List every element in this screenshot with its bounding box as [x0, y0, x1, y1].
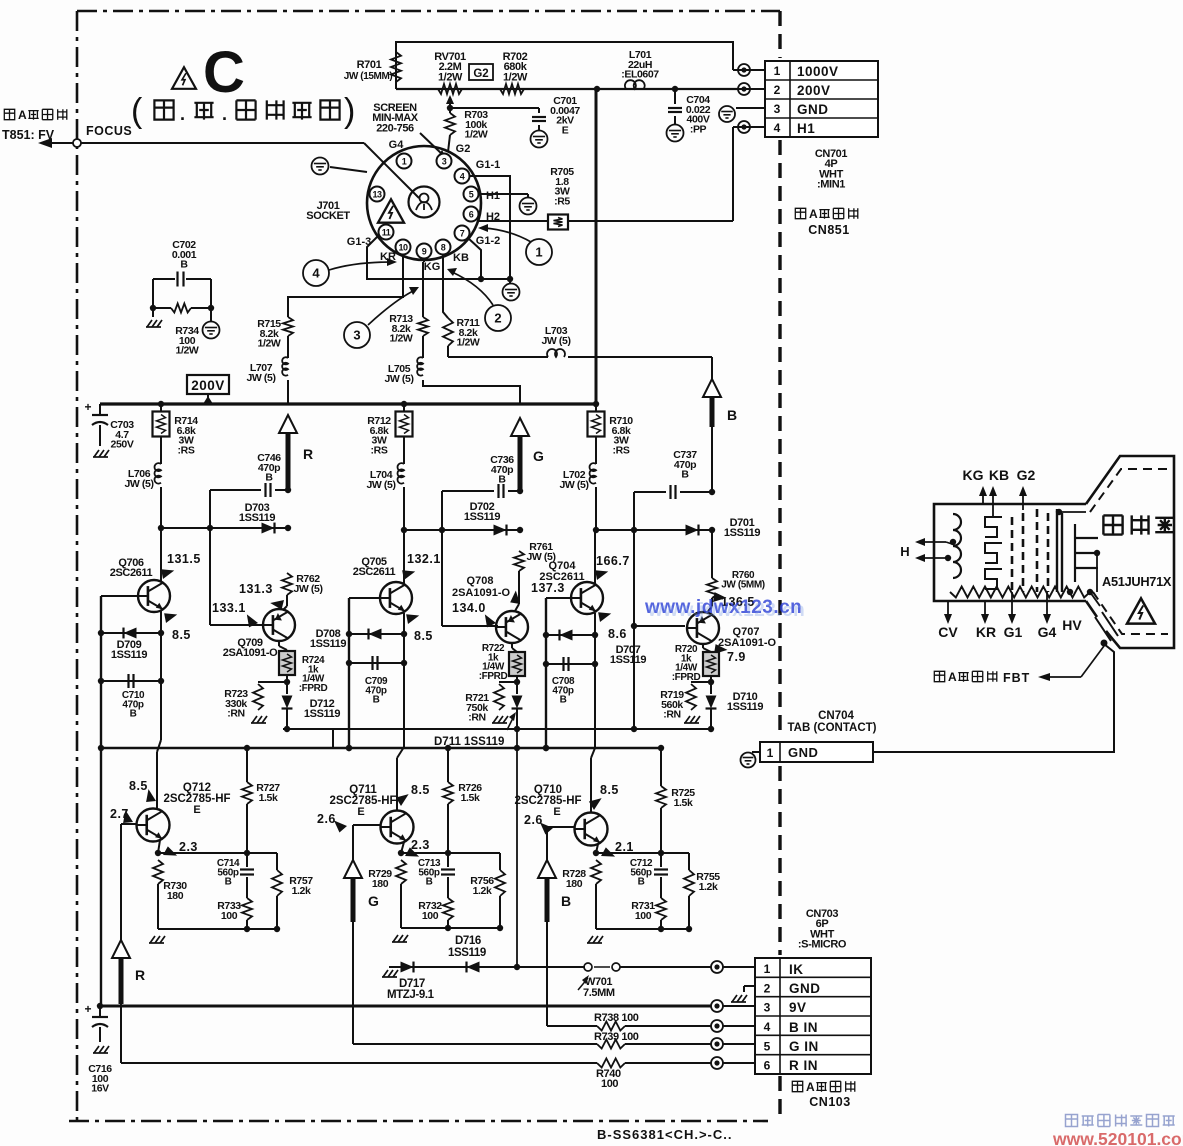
svg-text:180: 180 — [372, 878, 389, 890]
svg-text:1/2W: 1/2W — [465, 129, 488, 141]
resistor R722 — [479, 643, 525, 682]
svg-text::RS: :RS — [371, 444, 388, 456]
svg-text:B IN: B IN — [789, 1020, 818, 1035]
pin CN703-3 — [711, 1000, 755, 1012]
svg-text:R: R — [135, 967, 145, 983]
svg-text::FPRD: :FPRD — [479, 671, 508, 682]
pin 6 of socket J701 — [464, 207, 479, 222]
arrow B input — [538, 860, 571, 922]
label voltage 131.3 — [239, 582, 288, 613]
svg-text:8: 8 — [441, 243, 446, 253]
svg-text:B: B — [560, 695, 567, 706]
capacitor C714 — [217, 853, 254, 898]
label voltage 2.1 Q710 — [599, 840, 634, 861]
svg-text::RN: :RN — [663, 709, 680, 721]
svg-text:G2: G2 — [456, 143, 471, 155]
wire B base stage vertical — [631, 492, 685, 729]
wire 200V bus — [100, 401, 599, 407]
svg-text:CN704: CN704 — [818, 710, 854, 722]
svg-text:R701: R701 — [357, 59, 382, 71]
svg-text:2SA1091-O: 2SA1091-O — [718, 637, 777, 649]
svg-text:3: 3 — [353, 328, 360, 343]
svg-text:2SC2611: 2SC2611 — [110, 567, 153, 579]
svg-text:100: 100 — [422, 910, 439, 922]
svg-text:2SA1091-O: 2SA1091-O — [223, 647, 278, 659]
svg-text:B-SS6381<CH.>-C..: B-SS6381<CH.>-C.. — [597, 1127, 733, 1142]
label H arrows — [900, 538, 952, 562]
svg-text:3: 3 — [764, 1001, 771, 1015]
wire G1 bus — [367, 176, 513, 282]
svg-text:G4: G4 — [1038, 624, 1057, 640]
resistor R726 — [443, 748, 482, 853]
label voltage 8.5 Q712 — [129, 779, 159, 806]
svg-text:H1: H1 — [486, 190, 500, 202]
pin 8 of socket J701 — [436, 240, 451, 255]
svg-text::RN: :RN — [468, 712, 485, 724]
resistor R762 — [282, 573, 323, 595]
node R724 bottom — [284, 675, 290, 685]
svg-text:4: 4 — [764, 1020, 771, 1034]
label voltage 2.3 Q712 — [161, 840, 198, 860]
border frame dash-dot left — [76, 11, 79, 1121]
svg-text:1.2k: 1.2k — [699, 881, 718, 893]
diode D708 — [310, 628, 404, 650]
connector CN704 GND — [741, 742, 874, 768]
svg-text:E: E — [357, 806, 364, 818]
svg-text:.: . — [180, 104, 185, 124]
svg-text:www.520101.com: www.520101.com — [1052, 1129, 1183, 1146]
svg-text:KB: KB — [989, 467, 1009, 483]
svg-text:H1: H1 — [797, 121, 815, 136]
pin CN703-4 — [711, 1020, 755, 1032]
svg-text:200V: 200V — [191, 378, 225, 393]
wire R762 to Q709 — [283, 595, 287, 610]
wire B emitter rail — [587, 926, 692, 943]
pin 13 of socket J701 — [370, 187, 385, 202]
svg-text:134.0: 134.0 — [452, 601, 486, 615]
svg-text:8.5: 8.5 — [129, 779, 148, 793]
wire Q710 emitter — [593, 844, 689, 856]
pin 3 of socket J701 — [437, 154, 452, 169]
wire L707 down — [287, 380, 289, 404]
warning triangle socket — [378, 199, 404, 222]
border frame dashed right — [778, 11, 781, 1121]
svg-text:180: 180 — [167, 890, 184, 902]
svg-text:G2: G2 — [1017, 467, 1036, 483]
wire Q710 collector — [590, 810, 592, 812]
svg-text:1SS119: 1SS119 — [448, 947, 486, 959]
pin CN701-3 gnd — [719, 106, 765, 122]
label to A circuit board T851 FV — [2, 108, 67, 142]
resistor R723 — [224, 682, 287, 723]
wire focus to socket — [81, 143, 419, 198]
svg-text:13: 13 — [372, 190, 382, 200]
pin CN703-5 — [711, 1038, 755, 1050]
label voltage 131.5 — [157, 552, 200, 582]
svg-text:6: 6 — [764, 1059, 771, 1073]
diode D709 — [101, 628, 161, 662]
svg-text:1/2W: 1/2W — [438, 71, 463, 83]
label voltage 2.3 Q711 — [403, 838, 430, 861]
resistor R725 — [656, 748, 695, 853]
wire Q705 emitter chain — [397, 613, 407, 810]
CRT G2 solid grids — [1056, 509, 1086, 592]
svg-text:2.6: 2.6 — [524, 813, 543, 827]
wire H1 to ground — [478, 194, 537, 215]
title Chinese (red green blue output) — [131, 92, 355, 130]
pin 7 of socket J701 — [455, 226, 470, 241]
arrow R drive — [279, 415, 313, 490]
svg-text:1SS119: 1SS119 — [304, 708, 340, 720]
wire Q704 collector — [594, 530, 596, 584]
label voltage 8.5 Q710 — [588, 783, 619, 811]
wire main 200V rail top — [396, 88, 738, 90]
transistor Q705 2SC2611 — [353, 556, 412, 614]
svg-text:7: 7 — [460, 229, 465, 239]
svg-text:2.3: 2.3 — [179, 840, 198, 854]
svg-text:B: B — [561, 893, 571, 909]
svg-text:6: 6 — [469, 210, 474, 220]
svg-text:G1-1: G1-1 — [476, 159, 500, 171]
svg-text:B: B — [373, 695, 380, 706]
pin 1 of socket J701 — [397, 154, 412, 169]
svg-text:1SS119: 1SS119 — [610, 654, 646, 666]
wire Q706 emitter chain — [157, 611, 164, 809]
wire R emitter rail — [149, 926, 280, 943]
capacitor C736 — [442, 454, 523, 498]
label G2 box — [469, 64, 493, 80]
resistor R755 — [684, 853, 720, 929]
svg-text:180: 180 — [566, 878, 583, 890]
resistor R720 — [672, 644, 719, 683]
transistor Q709 2SA1091-O — [223, 609, 295, 659]
svg-text:CV: CV — [938, 624, 958, 640]
svg-text:8.5: 8.5 — [600, 783, 619, 797]
wire R760 to Q707 — [707, 598, 712, 613]
svg-text:JW (5): JW (5) — [559, 479, 588, 491]
svg-text:A: A — [806, 1080, 815, 1094]
svg-text:1/2W: 1/2W — [503, 71, 528, 83]
svg-text::EL0607: :EL0607 — [621, 69, 659, 81]
svg-text:133.1: 133.1 — [212, 601, 246, 615]
svg-text:JW (5MM): JW (5MM) — [721, 579, 765, 590]
wire Q711 emitter — [398, 842, 500, 856]
svg-text:G IN: G IN — [789, 1039, 819, 1054]
svg-text:R739 100: R739 100 — [594, 1031, 639, 1043]
svg-text:B: B — [727, 407, 737, 423]
svg-text:MTZJ-9.1: MTZJ-9.1 — [387, 989, 435, 1001]
label voltage 8.5 G emitter — [402, 609, 433, 643]
label to A board CN103 — [792, 1080, 854, 1109]
svg-text::R5: :R5 — [554, 195, 570, 207]
wire clamp rail — [283, 726, 714, 748]
resistor R713 — [389, 313, 428, 345]
wire R collector link — [161, 525, 291, 531]
label H1 — [486, 190, 500, 202]
svg-text:KG: KG — [963, 467, 984, 483]
transistor Q710 2SC2785-HF — [514, 784, 607, 846]
watermark 520101 url — [1052, 1129, 1183, 1146]
resistor R705 — [548, 166, 574, 230]
svg-text:JW (15MM): JW (15MM) — [344, 71, 393, 82]
svg-text::S-MICRO: :S-MICRO — [798, 939, 847, 951]
svg-text:A: A — [809, 207, 818, 221]
svg-text:): ) — [344, 92, 355, 130]
svg-text:4: 4 — [774, 121, 781, 135]
svg-text:3: 3 — [442, 157, 447, 167]
svg-text:100: 100 — [601, 1078, 618, 1090]
svg-text:G2: G2 — [473, 68, 488, 80]
resistor R730 — [153, 860, 187, 929]
capacitor C708 — [546, 657, 595, 706]
wire Q712 collector — [156, 809, 158, 810]
svg-text:JW (5): JW (5) — [124, 478, 153, 490]
svg-text:B: B — [498, 474, 506, 486]
svg-text:KB: KB — [453, 252, 469, 264]
svg-text:FBT: FBT — [1003, 671, 1030, 685]
svg-text:+: + — [84, 1002, 91, 1016]
svg-text:G: G — [368, 893, 379, 909]
svg-text::MIN1: :MIN1 — [817, 179, 845, 191]
test point 4 — [303, 258, 397, 286]
svg-text:B: B — [426, 877, 433, 888]
CRT G4 element — [1075, 524, 1100, 592]
svg-text:IK: IK — [789, 962, 804, 977]
label G1-2 — [476, 235, 500, 247]
svg-text::RS: :RS — [178, 444, 195, 456]
node focus terminal — [73, 139, 81, 147]
resistor R756 — [470, 853, 505, 928]
diode D712 — [282, 682, 341, 729]
label G2 pin3 — [456, 143, 471, 155]
warning triangle title — [172, 67, 196, 89]
wire 1000V top loop — [396, 42, 733, 89]
inductor L704 — [366, 463, 404, 530]
border frame dash-dot top — [77, 10, 780, 13]
wire R bias vertical — [98, 596, 138, 1006]
wire R761 to Q708 — [515, 571, 519, 611]
svg-text:R738 100: R738 100 — [594, 1012, 639, 1024]
CRT cathodes — [985, 517, 1002, 589]
resistor R701 — [344, 52, 401, 82]
wire G emitter rail — [392, 925, 503, 942]
label to A board FBT — [934, 646, 1104, 685]
label voltage 2.6 Q711 — [317, 812, 347, 833]
svg-text:1.5k: 1.5k — [461, 792, 480, 804]
svg-text:1.2k: 1.2k — [292, 885, 311, 897]
label H2 — [486, 211, 500, 223]
label KG KB G2 arrows — [963, 467, 1036, 517]
svg-text:1: 1 — [767, 746, 774, 760]
svg-text:GND: GND — [788, 745, 818, 760]
svg-text:2.6: 2.6 — [317, 812, 336, 826]
svg-text:JW (5): JW (5) — [366, 479, 395, 491]
connector CN703 table — [755, 958, 871, 1074]
svg-text:1.5k: 1.5k — [259, 792, 278, 804]
svg-text:C: C — [203, 40, 245, 105]
resistor R711 — [443, 317, 480, 349]
diode D707 — [546, 630, 646, 667]
label KG — [424, 261, 441, 273]
capacitor C746 — [210, 452, 291, 497]
wire Q711 base — [353, 825, 381, 1044]
resistor R728 — [562, 860, 601, 929]
ground G1 — [503, 279, 520, 301]
label G1-3 — [347, 236, 371, 248]
capacitor C704 — [667, 89, 711, 142]
wire G IN line — [353, 1031, 711, 1049]
test point 3 — [344, 287, 419, 348]
label CV KR G1 G4 HV — [938, 592, 1082, 640]
svg-text:1: 1 — [402, 157, 407, 167]
label voltage 132.1 — [398, 552, 440, 583]
pin CN701-2 — [738, 83, 765, 95]
svg-text:KG: KG — [424, 261, 441, 273]
svg-text:2.3: 2.3 — [411, 838, 430, 852]
resistor R734 — [150, 304, 214, 357]
svg-text:B: B — [180, 259, 188, 271]
svg-text:R: R — [303, 446, 313, 462]
resistor R719 — [660, 682, 711, 723]
resistor R715 — [257, 317, 293, 350]
pin 4 of socket J701 — [455, 169, 470, 184]
svg-text:D711 1SS119: D711 1SS119 — [434, 736, 504, 748]
wire Q706 collector — [160, 528, 162, 582]
test point 2 — [447, 268, 511, 331]
svg-text:8.5: 8.5 — [411, 783, 430, 797]
svg-text::RN: :RN — [227, 708, 244, 720]
test point 1 — [478, 224, 552, 265]
wire B collector link — [596, 527, 715, 533]
label CN703 6P WHT S-MICRO — [798, 908, 847, 951]
svg-text:2: 2 — [774, 83, 781, 97]
label voltage 2.6 Q710 — [524, 813, 553, 835]
capacitor C737 — [634, 449, 712, 499]
svg-text:11: 11 — [382, 228, 391, 238]
CRT anode contact hatch — [1095, 612, 1118, 647]
svg-text:137.3: 137.3 — [531, 581, 565, 595]
svg-text:131.5: 131.5 — [167, 552, 201, 566]
label voltage 8.5 R emitter — [160, 608, 191, 642]
diode D701 — [686, 517, 761, 539]
inductor L702 — [559, 463, 596, 530]
svg-text:4: 4 — [312, 266, 320, 281]
svg-text:1SS119: 1SS119 — [464, 511, 500, 523]
arrow G input — [344, 860, 379, 922]
wire 9V line — [97, 1003, 711, 1009]
svg-text:1SS119: 1SS119 — [724, 527, 760, 539]
svg-text:3: 3 — [774, 102, 781, 116]
label voltage 2.7 Q712 — [110, 807, 136, 827]
svg-text:2: 2 — [494, 311, 501, 326]
wire IK line — [396, 731, 585, 970]
pin CN701-1 — [733, 64, 765, 76]
svg-text::PP: :PP — [690, 123, 707, 135]
svg-text:GND: GND — [789, 981, 821, 996]
svg-text:JW (5): JW (5) — [384, 373, 413, 385]
resistor R731 — [631, 898, 666, 929]
wire R base stage vertical — [210, 490, 264, 625]
svg-text:5: 5 — [764, 1039, 771, 1053]
svg-text:10: 10 — [398, 243, 408, 253]
wire G collector link — [404, 527, 523, 533]
wire G base stage vertical — [442, 491, 498, 626]
svg-text:(: ( — [131, 92, 143, 130]
node R collector junction — [158, 525, 164, 531]
resistor R724 — [279, 641, 327, 694]
resistor R721 — [465, 682, 517, 724]
wire CN704 to CRT — [873, 644, 1114, 752]
wire Q705 collector — [403, 530, 405, 584]
wire KB route — [443, 254, 448, 318]
svg-text:7.5MM: 7.5MM — [583, 987, 615, 999]
wire H2 to R705 — [478, 218, 547, 221]
label KR — [380, 251, 396, 263]
node R720 bottom — [708, 676, 714, 685]
svg-text:Q708: Q708 — [467, 575, 494, 587]
node FOCUS label — [86, 124, 132, 138]
node B collector junction — [593, 527, 599, 533]
transistor Q711 2SC2785-HF — [329, 784, 413, 844]
svg-text:E: E — [553, 806, 560, 818]
svg-text:1/2W: 1/2W — [258, 338, 281, 350]
svg-text:7.9: 7.9 — [727, 650, 746, 664]
svg-text:B: B — [225, 877, 232, 888]
svg-text:2: 2 — [764, 981, 771, 995]
wire focus arrow — [38, 138, 77, 148]
diode D717 zener — [382, 962, 460, 1001]
svg-text:KR: KR — [976, 624, 996, 640]
svg-text:www.jdwx123.cn: www.jdwx123.cn — [647, 600, 805, 621]
svg-text:200V: 200V — [797, 83, 831, 98]
inductor L706 — [124, 463, 161, 528]
label G1-1 — [476, 159, 500, 171]
svg-text:100: 100 — [221, 910, 238, 922]
svg-text:2SC2785-HF: 2SC2785-HF — [514, 795, 581, 807]
CRT inner coating dashes — [1090, 469, 1168, 634]
resistor R760 — [707, 530, 765, 598]
arrow G drive — [511, 418, 544, 491]
svg-text::RS: :RS — [613, 444, 630, 456]
resistor R761 — [514, 541, 556, 571]
svg-text:132.1: 132.1 — [407, 552, 441, 566]
pin CN703-6 — [711, 1057, 755, 1069]
wire KR route — [288, 254, 403, 317]
resistor R733 — [217, 898, 252, 929]
svg-text:8.5: 8.5 — [414, 629, 433, 643]
svg-text:1SS119: 1SS119 — [310, 638, 346, 650]
socket J701 outline — [367, 146, 481, 260]
svg-text:1/2W: 1/2W — [390, 333, 413, 345]
resistor R757 — [272, 853, 313, 929]
diode D710 — [706, 682, 764, 729]
resistor R714 — [153, 404, 199, 464]
arrow B drive — [703, 379, 737, 427]
svg-text:1SS119: 1SS119 — [111, 649, 147, 661]
CRT heater — [945, 514, 961, 578]
node G collector junction — [401, 527, 407, 533]
wire KB top — [711, 357, 713, 379]
svg-text:8.5: 8.5 — [172, 628, 191, 642]
wire B arrow to junction — [709, 427, 715, 495]
label voltage 166.7 — [591, 554, 629, 583]
label CRT model A51JUH71X — [1102, 574, 1172, 589]
label J701 SOCKET — [306, 200, 350, 222]
svg-text:1: 1 — [535, 245, 542, 260]
label voltage 7.9 — [710, 641, 746, 664]
resistor R712 — [367, 404, 412, 464]
svg-text:220-756: 220-756 — [376, 122, 414, 134]
